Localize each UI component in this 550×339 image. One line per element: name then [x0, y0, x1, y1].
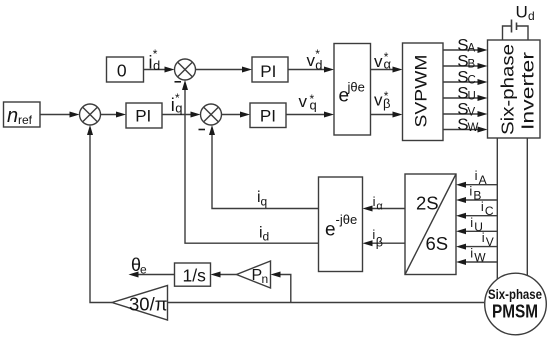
arrow i_d up into d junction — [182, 80, 188, 90]
wire i_d feedback to d junction — [185, 87, 319, 243]
svg-text:v: v — [374, 91, 383, 110]
svg-text:U: U — [516, 3, 528, 22]
svg-text:e: e — [325, 220, 336, 241]
wire q junction to PI q current controller — [222, 114, 244, 116]
arrow i_beta into e^-jtheta — [363, 240, 373, 246]
gain 30/pi triangle — [112, 286, 168, 321]
svg-text:i: i — [482, 230, 485, 245]
wire speed feedback from PMSM — [168, 302, 485, 304]
svg-text:A: A — [479, 173, 487, 187]
arrow S_V into inverter — [478, 111, 488, 117]
svg-text:Inverter: Inverter — [518, 52, 538, 130]
svg-text:6S: 6S — [426, 233, 449, 254]
wire gate signal S_A — [443, 49, 481, 51]
svg-text:V: V — [468, 106, 476, 118]
wire current tap i_V — [463, 246, 498, 248]
arrow i_q up into q junction — [209, 125, 215, 135]
arrow into PI speed — [116, 112, 126, 118]
minus sign at d junction — [175, 81, 182, 83]
block zero reference (i_d*=0) — [107, 57, 144, 82]
wire gate signal S_V — [443, 113, 481, 115]
svg-text:B: B — [468, 58, 476, 70]
arrow v_d* into e^jtheta — [324, 67, 334, 73]
svg-text:v: v — [307, 51, 316, 70]
arrow v_beta* into SVPWM — [393, 112, 403, 118]
svg-text:C: C — [468, 74, 476, 86]
arrow i_A into 2S/6S — [456, 182, 466, 188]
block PI d-axis current controller — [252, 57, 288, 82]
svg-text:n: n — [7, 105, 18, 127]
battery U_d short plate — [516, 23, 518, 31]
wire i_beta 2S/6S to e^-jtheta — [369, 242, 405, 244]
wire 30/pi output up to speed junction — [90, 132, 112, 303]
svg-text:W: W — [474, 251, 486, 265]
summing junction q-axis current — [201, 104, 222, 125]
wire v_beta* to SVPWM — [371, 114, 396, 116]
arrow v_alpha* into SVPWM — [393, 67, 403, 73]
arrow S_B into inverter — [478, 63, 488, 69]
wire PI q out (v_q*) to e^jtheta block — [286, 114, 327, 116]
wire branch up to P_n — [279, 275, 291, 303]
svg-text:i: i — [469, 184, 472, 199]
svg-text:d: d — [528, 9, 535, 23]
svg-text:d: d — [263, 230, 270, 244]
wire gate signal S_W — [443, 129, 481, 131]
svg-text:A: A — [468, 42, 476, 54]
arrow P_n into 1/s — [211, 272, 221, 278]
svg-text:α: α — [376, 201, 383, 213]
arrow theta_e output — [129, 272, 139, 278]
minus sign at q junction — [199, 129, 206, 131]
wire PI speed out (i_q*) to q-axis summing junction — [162, 114, 194, 116]
wire speed junction to PI speed controller — [101, 114, 120, 116]
arrow S_W into inverter — [478, 127, 488, 133]
block 1/s integrator — [175, 263, 211, 286]
machine six-phase PMSM circle — [485, 273, 547, 335]
wire DC link left lead — [503, 26, 512, 40]
wire current tap i_U — [463, 230, 498, 232]
svg-text:i: i — [475, 168, 478, 183]
svg-text:C: C — [485, 204, 494, 218]
summing junction speed (n) — [80, 104, 101, 125]
svg-text:PI: PI — [260, 106, 276, 125]
arrow speed into P_n — [271, 272, 281, 278]
svg-text:PI: PI — [260, 62, 276, 81]
wire P_n to 1/s integrator — [217, 274, 237, 276]
svg-text:ref: ref — [18, 113, 33, 127]
svg-text:1/s: 1/s — [183, 266, 207, 286]
svg-text:d: d — [315, 58, 322, 73]
wire gate signal S_B — [443, 65, 481, 67]
arrow into d junction — [165, 67, 175, 73]
arrow i_W into 2S/6S — [456, 259, 466, 265]
arrow into PI d — [242, 67, 252, 73]
wire v_alpha* to SVPWM — [371, 69, 396, 71]
wire i_alpha 2S/6S to e^-jtheta — [369, 208, 405, 210]
wire current tap i_C — [463, 215, 498, 217]
arrow i_alpha into e^-jtheta — [363, 206, 373, 212]
arrow n feedback up into speed junction — [87, 125, 93, 135]
svg-text:i: i — [470, 246, 473, 261]
wire motor phase lead left — [496, 138, 498, 281]
svg-text:30/π: 30/π — [129, 294, 167, 315]
arrow S_U into inverter — [478, 95, 488, 101]
svg-text:PI: PI — [135, 106, 151, 125]
svg-text:0: 0 — [117, 60, 127, 80]
arrow v_q* into e^jtheta — [324, 112, 334, 118]
block SVPWM modulator — [403, 43, 444, 141]
wire i_q feedback to q junction — [212, 132, 319, 209]
arrow i_C into 2S/6S — [456, 213, 466, 219]
svg-text:jθe: jθe — [347, 80, 365, 95]
svg-text:v: v — [374, 52, 383, 71]
block six-phase inverter — [488, 40, 541, 138]
arrow into PI q — [240, 112, 250, 118]
block PI q-axis current controller — [250, 103, 286, 128]
svg-text:i: i — [470, 215, 473, 230]
svg-text:q: q — [310, 98, 317, 113]
wire current tap i_W — [463, 261, 498, 263]
svg-text:d: d — [153, 58, 160, 73]
wire d junction to PI d current controller — [196, 69, 246, 71]
svg-text:2S: 2S — [416, 193, 439, 214]
wire current tap i_B — [463, 199, 498, 201]
battery U_d long plate — [511, 20, 513, 33]
arrow S_A into inverter — [478, 47, 488, 53]
wire gate signal S_C — [443, 81, 481, 83]
arrow i_V into 2S/6S — [456, 244, 466, 250]
arrow into q junction — [191, 112, 201, 118]
svg-text:PMSM: PMSM — [492, 302, 538, 322]
wire motor phase lead right — [526, 138, 528, 277]
svg-text:i: i — [481, 199, 484, 214]
svg-text:q: q — [261, 195, 268, 209]
svg-text:U: U — [468, 90, 476, 102]
block e^jtheta_e inverse Park transform — [334, 44, 371, 136]
arrowheads — [70, 47, 488, 278]
arrow S_C into inverter — [478, 79, 488, 85]
wire n_ref to speed summing junction — [40, 114, 72, 116]
svg-text:Six-phase: Six-phase — [498, 44, 518, 135]
svg-text:e: e — [140, 263, 147, 277]
svg-text:β: β — [383, 96, 390, 111]
block 2S/6S transformation — [405, 174, 456, 275]
svg-text:Six-phase: Six-phase — [488, 287, 542, 302]
svg-text:q: q — [175, 101, 182, 116]
svg-text:n: n — [262, 272, 269, 286]
block n_ref reference speed input — [4, 102, 41, 127]
wire 0 to d-axis summing junction — [143, 69, 168, 71]
summing junction d-axis current — [175, 59, 196, 80]
block PI speed controller — [126, 103, 162, 128]
svg-text:v: v — [299, 92, 308, 111]
svg-text:α: α — [384, 56, 392, 71]
svg-text:SVPWM: SVPWM — [412, 55, 431, 128]
arrow into speed junction — [70, 112, 80, 118]
svg-text:V: V — [486, 235, 494, 249]
gain P_n pole pairs triangle — [237, 261, 271, 288]
wire gate signal S_U — [443, 97, 481, 99]
wire current tap i_A — [463, 184, 498, 186]
wire PI d out (v_d*) to e^jtheta block — [288, 69, 327, 71]
arrow i_U into 2S/6S — [456, 228, 466, 234]
arrow i_B into 2S/6S — [456, 197, 466, 203]
svg-text:W: W — [468, 122, 479, 134]
block e^-jtheta_e Park transform — [319, 177, 363, 272]
svg-text:β: β — [376, 236, 383, 250]
wire theta_e output arrow — [135, 274, 175, 276]
svg-text:i: i — [373, 194, 376, 209]
svg-text:-jθe: -jθe — [336, 212, 358, 227]
wire DC link right lead — [517, 26, 528, 40]
